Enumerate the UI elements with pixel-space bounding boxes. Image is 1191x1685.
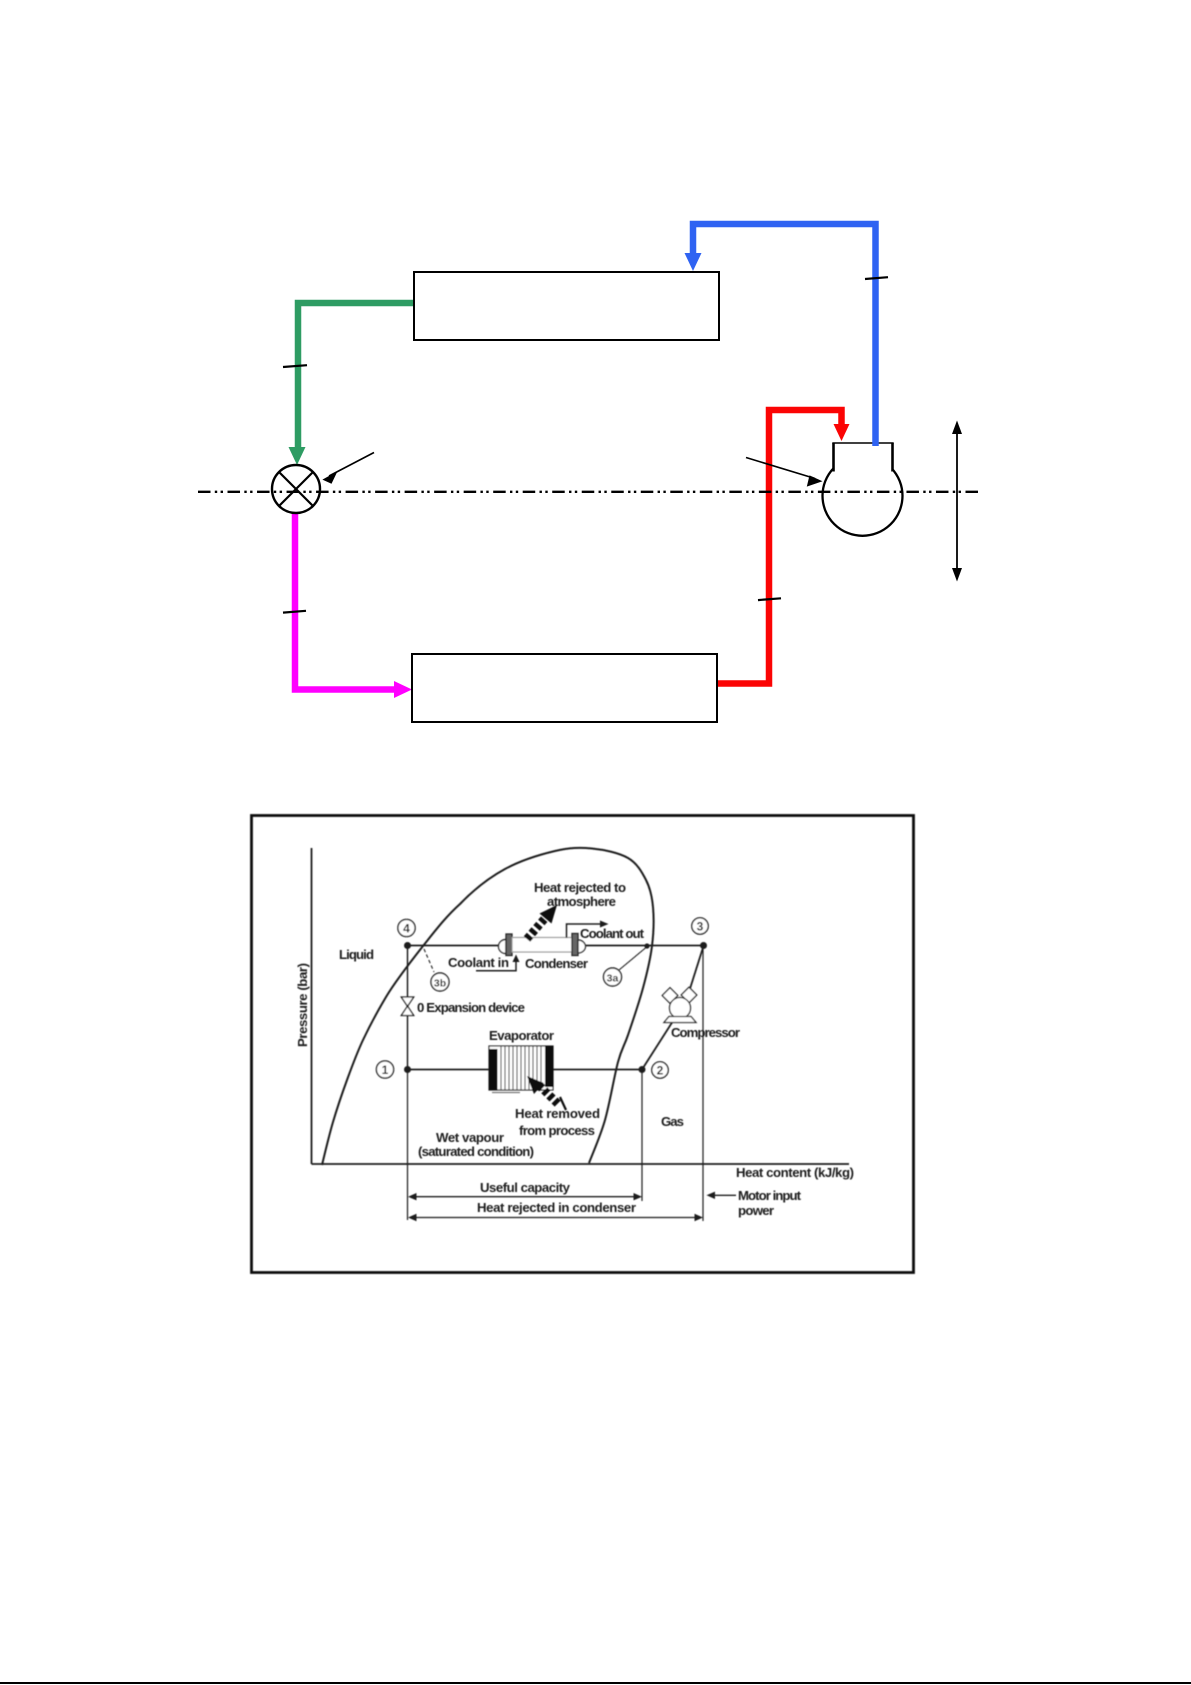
node label circled 4 (398, 919, 415, 936)
svg-text:Gas: Gas (661, 1114, 684, 1129)
svg-text:atmosphere: atmosphere (547, 894, 616, 909)
svg-text:from process: from process (519, 1123, 595, 1138)
svg-text:Heat rejected in condenser: Heat rejected in condenser (477, 1200, 636, 1215)
svg-text:Compressor: Compressor (671, 1025, 740, 1040)
svg-text:Wet vapour: Wet vapour (436, 1130, 504, 1145)
annotation arrow pointing to expansion valve (322, 453, 374, 484)
svg-text:Useful capacity: Useful capacity (480, 1180, 571, 1195)
node label circled 3 (692, 918, 708, 934)
figure frame (252, 816, 914, 1273)
expansion valve symbol (circle with X) (272, 465, 320, 513)
expansion device symbol (bowtie) (401, 997, 413, 1006)
saturation dome curve (322, 848, 654, 1165)
node dot point 2 (639, 1066, 646, 1073)
annotation arrow pointing to compressor (746, 458, 823, 487)
compressor symbol (pump with valves) (662, 987, 697, 1022)
node label circled 3a with leader line (619, 948, 646, 971)
extension line below point 1 (407, 1070, 409, 1221)
x axis (312, 1163, 850, 1165)
svg-text:3a: 3a (607, 973, 619, 985)
svg-text:Motor input: Motor input (738, 1188, 802, 1203)
svg-text:Coolant in: Coolant in (448, 955, 509, 970)
svg-text:(saturated condition): (saturated condition) (418, 1144, 534, 1159)
wire: blue pipe from compressor top to condenser (hot gas return) (685, 224, 876, 446)
coolant in pipe with arrow (476, 958, 516, 971)
evaporator line 1-2 (408, 1069, 643, 1071)
svg-text:3: 3 (697, 920, 704, 934)
svg-text:Pressure (bar): Pressure (bar) (295, 963, 310, 1047)
y axis (311, 848, 313, 1164)
coolant out pipe with arrow (567, 924, 603, 938)
node dot at 3a crossing (644, 943, 649, 948)
compressor symbol (circle with hat) (823, 443, 903, 536)
wire: green pipe from condenser to expansion valve (289, 303, 415, 465)
svg-text:power: power (738, 1203, 774, 1218)
node label circled 1 (376, 1061, 393, 1078)
vertical double-headed arrow at right (952, 421, 962, 582)
extension line from point 3 down (702, 946, 704, 1222)
node dot point 3 (700, 942, 707, 949)
condenser box (414, 272, 719, 340)
extension line below point 2 (641, 1070, 643, 1202)
svg-text:Heat content (kJ/kg): Heat content (kJ/kg) (736, 1165, 854, 1180)
svg-text:Liquid: Liquid (339, 947, 374, 962)
heat rejected hatched arrow (527, 905, 557, 939)
svg-text:0 Expansion device: 0 Expansion device (417, 1000, 525, 1015)
evaporator drawing (hatched coil) (489, 1046, 554, 1093)
wire: magenta pipe from expansion valve to evaporator (295, 513, 412, 698)
svg-text:4: 4 (403, 922, 410, 936)
heat removed hatched arrow (527, 1076, 566, 1110)
svg-text:1: 1 (382, 1063, 389, 1077)
svg-text:Coolant out: Coolant out (580, 926, 645, 941)
tick on magenta pipe (283, 611, 306, 613)
svg-text:Heat removed: Heat removed (515, 1106, 600, 1121)
svg-text:Heat rejected to: Heat rejected to (534, 880, 626, 895)
svg-text:3b: 3b (434, 978, 446, 990)
node dot point 4 (404, 942, 411, 949)
tick on green pipe (283, 365, 307, 367)
compressor line to point 3 (688, 946, 704, 995)
dimension arrow: useful capacity (408, 1193, 642, 1200)
center line (dash-dot-dot) (198, 491, 978, 493)
motor input power arrow (707, 1192, 737, 1199)
svg-text:Condenser: Condenser (525, 956, 588, 971)
svg-text:2: 2 (657, 1064, 664, 1078)
condenser drawing (cylinder) (499, 940, 507, 954)
dimension arrow: heat rejected in condenser (408, 1214, 703, 1221)
footer rule (0, 1682, 1191, 1684)
condenser line 4-3 (408, 945, 704, 947)
node dot point 1 (404, 1066, 411, 1073)
compressor line from point 2 (642, 1021, 673, 1070)
tick on blue pipe (865, 277, 888, 279)
node label circled 3b with dashed leader (424, 949, 434, 972)
tick on red pipe (758, 598, 781, 600)
wire: red pipe from evaporator to compressor (717, 410, 850, 684)
svg-text:Evaporator: Evaporator (489, 1028, 554, 1043)
evaporator box (412, 654, 717, 722)
node label circled 2 (652, 1062, 668, 1078)
vertical line 4 to 1 (through expansion device) (407, 946, 409, 1070)
